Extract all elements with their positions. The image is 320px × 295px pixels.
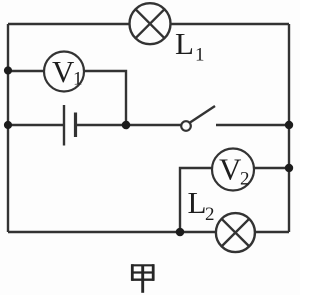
svg-text:V: V [219,152,242,187]
svg-text:L: L [175,26,194,61]
svg-text:2: 2 [205,204,215,225]
svg-text:L: L [188,185,207,220]
svg-text:1: 1 [73,69,83,90]
svg-text:2: 2 [240,169,250,190]
svg-text:V: V [52,54,75,89]
svg-text:1: 1 [195,45,205,66]
